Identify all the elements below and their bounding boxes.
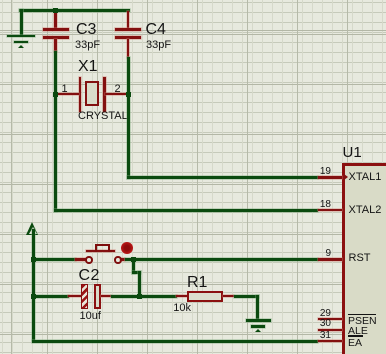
junction C2 row / button drop <box>137 294 142 299</box>
wire power rail down <box>32 229 35 341</box>
label X1 <box>78 59 98 75</box>
pin 31 EA <box>318 340 342 343</box>
junction node 2 (X1 pin 2 / C4 / XTAL1 rail) <box>126 92 131 97</box>
wire XTAL2 run <box>54 209 318 212</box>
pin 30 ALE <box>318 329 342 332</box>
value CRYSTAL <box>78 111 128 122</box>
pin name XTAL2 <box>349 205 382 216</box>
pin name PSEN <box>348 316 377 327</box>
pin number 1 (X1) <box>62 84 68 95</box>
wire ground drop (R1) <box>256 295 259 321</box>
wire node 2 down <box>127 95 130 180</box>
wire XTAL1 run <box>127 176 319 179</box>
wire C2 to R1 <box>111 295 177 298</box>
pin number 18 <box>301 200 331 210</box>
capacitor C3 <box>0 0 386 1</box>
pin name XTAL1 <box>349 172 382 183</box>
value 10uf <box>80 311 101 322</box>
wire jog right <box>132 271 141 274</box>
label C4 <box>146 22 166 38</box>
crystal X1 <box>0 0 386 1</box>
wire node 1 down left rail <box>54 95 57 212</box>
junction power rail / RST row <box>31 257 36 262</box>
wire R1 to ground corner <box>234 295 260 298</box>
clock arrow XTAL1 <box>344 174 348 180</box>
power arrow symbol <box>0 0 386 1</box>
junction button / RST row <box>131 257 136 262</box>
label C2 <box>79 268 100 284</box>
junction node 1 (X1 pin 1 / C3 / XTAL2 rail) <box>53 92 58 97</box>
overline PSEN <box>348 314 376 315</box>
pin number 31 <box>301 331 331 341</box>
resistor R1 <box>0 0 386 1</box>
label C3 <box>76 22 96 38</box>
pin 29 PSEN <box>318 318 342 321</box>
wire RST row left segment <box>32 258 76 261</box>
value 33pF (C4) <box>146 40 171 51</box>
wire button drop <box>132 258 135 274</box>
pin number 19 <box>301 167 331 177</box>
label U1 <box>343 145 362 160</box>
wire drop to C2 row <box>138 271 141 298</box>
chip U1 body <box>342 163 386 354</box>
wire button to RST pin <box>125 258 319 261</box>
wire ground drop <box>20 9 23 36</box>
junction power rail / C2 row <box>31 294 36 299</box>
pin 19 XTAL1 <box>318 176 342 179</box>
wire C3 to crystal pin 1 node <box>54 51 57 96</box>
wire C4 to crystal pin 2 node <box>127 57 130 96</box>
pin 9 RST <box>318 258 342 261</box>
wire C2 row left segment <box>32 295 69 298</box>
junction top rail / C3 <box>53 8 58 13</box>
pushbutton <box>0 0 386 1</box>
pin name EA <box>348 338 362 349</box>
capacitor C4 <box>0 0 386 1</box>
pin name RST <box>349 253 371 264</box>
capacitor C2 (electrolytic) <box>0 0 386 1</box>
pin number 29 <box>301 309 331 319</box>
pin number 2 (X1) <box>115 84 121 95</box>
wire bottom row to EA pin <box>32 340 319 343</box>
pin number 30 <box>301 319 331 329</box>
value 33pF (C3) <box>75 40 100 51</box>
overline EA <box>348 335 363 336</box>
pin name ALE <box>348 326 368 337</box>
value 10k <box>173 303 191 314</box>
wire top rail (ground to C4 branch) <box>19 9 130 12</box>
ground (bottom) <box>0 0 386 1</box>
label R1 <box>187 275 207 291</box>
pin number 9 <box>301 249 331 259</box>
ground (top-left) <box>0 0 386 1</box>
pin 18 XTAL2 <box>318 209 342 212</box>
